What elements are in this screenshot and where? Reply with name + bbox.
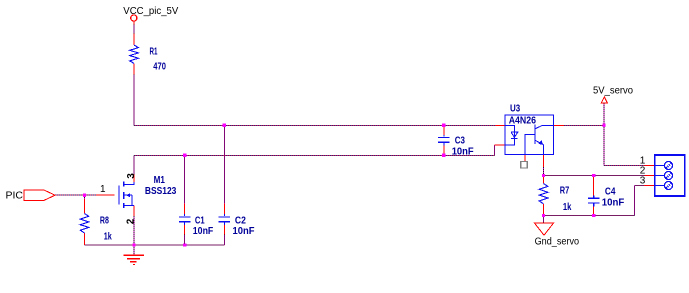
svg-text:C1: C1 <box>195 216 205 227</box>
svg-text:R7: R7 <box>560 185 570 196</box>
svg-text:BSS123: BSS123 <box>145 186 177 197</box>
svg-text:1k: 1k <box>563 202 572 213</box>
svg-text:1: 1 <box>100 184 106 195</box>
svg-text:C2: C2 <box>235 216 246 227</box>
svg-text:PIC: PIC <box>6 190 24 202</box>
svg-text:C4: C4 <box>605 187 616 198</box>
svg-text:5V_servo: 5V_servo <box>593 84 633 96</box>
svg-text:U3: U3 <box>510 104 521 115</box>
svg-text:10nF: 10nF <box>602 197 625 208</box>
svg-text:10nF: 10nF <box>452 146 474 157</box>
svg-text:2: 2 <box>126 218 137 224</box>
svg-text:VCC_pic_5V: VCC_pic_5V <box>123 5 178 17</box>
svg-text:M1: M1 <box>154 175 166 186</box>
svg-text:C3: C3 <box>455 136 466 147</box>
svg-text:3: 3 <box>640 175 646 186</box>
svg-text:R1: R1 <box>150 46 158 57</box>
svg-text:470: 470 <box>153 62 166 73</box>
svg-text:A4N26: A4N26 <box>509 115 537 126</box>
svg-text:R8: R8 <box>100 216 109 227</box>
svg-text:Gnd_servo: Gnd_servo <box>535 235 580 247</box>
svg-text:3: 3 <box>126 173 137 179</box>
svg-text:1k: 1k <box>104 232 112 243</box>
svg-text:10nF: 10nF <box>193 226 214 237</box>
svg-text:10nF: 10nF <box>233 226 255 237</box>
